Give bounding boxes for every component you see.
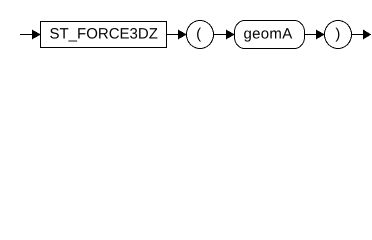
- arrowhead 2: [178, 30, 187, 40]
- svg-text:geomA: geomA: [243, 25, 292, 42]
- terminal circle lparen: [187, 21, 214, 49]
- wire: entry rail: [20, 34, 33, 36]
- box ST_FORCE3DZ: [41, 22, 167, 48]
- wire: rail lparen to geomA: [213, 34, 227, 36]
- svg-text:(: (: [196, 25, 201, 42]
- arrowhead 3: [226, 30, 235, 40]
- terminal oval geomA: [235, 21, 305, 49]
- wire: rail box to lparen: [167, 34, 179, 36]
- wire: exit rail: [351, 34, 364, 36]
- terminal circle rparen: [325, 21, 352, 49]
- syntax diagram ST_Force3DZ: [0, 0, 372, 58]
- svg-text:): ): [335, 25, 340, 42]
- arrowhead 4: [316, 30, 325, 40]
- arrowhead 1: [32, 30, 41, 40]
- svg-text:ST_FORCE3DZ: ST_FORCE3DZ: [50, 25, 158, 42]
- wire: rail geomA to rparen: [305, 34, 318, 36]
- background: [0, 0, 372, 58]
- arrowhead 5: [363, 30, 371, 40]
